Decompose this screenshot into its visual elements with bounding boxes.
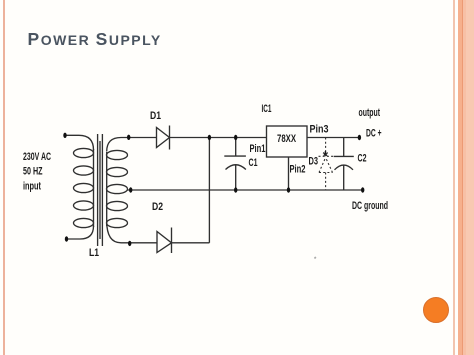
diode D3 (dashed, optional) <box>319 138 334 191</box>
svg-text:*: * <box>314 257 317 263</box>
wire: D2 riser to top rail <box>208 138 210 243</box>
svg-text:DC +: DC + <box>366 128 382 140</box>
svg-text:C1: C1 <box>249 157 258 169</box>
svg-text:DC ground: DC ground <box>352 200 388 212</box>
capacitor C2 <box>334 138 354 191</box>
svg-text:D1: D1 <box>150 110 161 122</box>
svg-text:input: input <box>23 181 41 193</box>
diode D1 <box>157 126 170 150</box>
node: secondary top junction <box>127 135 130 140</box>
svg-text:D2: D2 <box>152 201 163 213</box>
svg-text:IC1: IC1 <box>262 103 272 115</box>
node: C1 bottom junction <box>234 187 237 192</box>
svg-text:*: * <box>323 149 329 164</box>
wire: bottom rail (center tap to ground) <box>128 189 363 191</box>
capacitor C1 <box>224 138 246 191</box>
wire: top rail <box>129 137 360 139</box>
node: AC input top terminal <box>63 133 66 138</box>
wire: AC input top lead into primary <box>65 135 94 150</box>
wire: secondary bottom to D2 line <box>107 221 157 243</box>
node: center tap <box>129 187 132 192</box>
svg-text:D3: D3 <box>309 156 319 168</box>
IC U1 78XX regulator box <box>267 126 308 157</box>
transformer core <box>98 134 103 246</box>
svg-text:230V AC: 230V AC <box>23 151 51 163</box>
svg-text:Pin3: Pin3 <box>310 124 329 136</box>
svg-text:Pin2: Pin2 <box>290 164 306 176</box>
svg-text:C2: C2 <box>358 153 367 165</box>
node: DC+ output terminal <box>358 135 361 140</box>
svg-text:L1: L1 <box>89 247 99 259</box>
diode D2 <box>157 228 172 254</box>
node: secondary bottom junction <box>128 241 131 246</box>
svg-text:50 HZ: 50 HZ <box>23 166 43 178</box>
wire: pin2 to ground rail <box>288 157 290 190</box>
svg-text:Pin1: Pin1 <box>250 143 266 155</box>
wire: secondary top to rail <box>107 138 129 152</box>
svg-text:output: output <box>359 107 381 119</box>
node: AC input bottom terminal <box>65 236 68 241</box>
wire: AC input bottom lead into primary <box>67 226 94 239</box>
node: D2 riser junction <box>208 135 211 140</box>
transformer L1 primary winding <box>74 148 94 227</box>
slide title: POWER SUPPLY <box>28 32 162 48</box>
node: DC ground terminal <box>361 187 364 192</box>
node: pin2 ground junction <box>287 187 290 192</box>
node: C1 top junction <box>234 135 237 140</box>
wire: D2 output to riser <box>172 242 210 244</box>
transformer L1 secondary winding <box>107 150 128 227</box>
svg-text:78XX: 78XX <box>277 133 296 145</box>
